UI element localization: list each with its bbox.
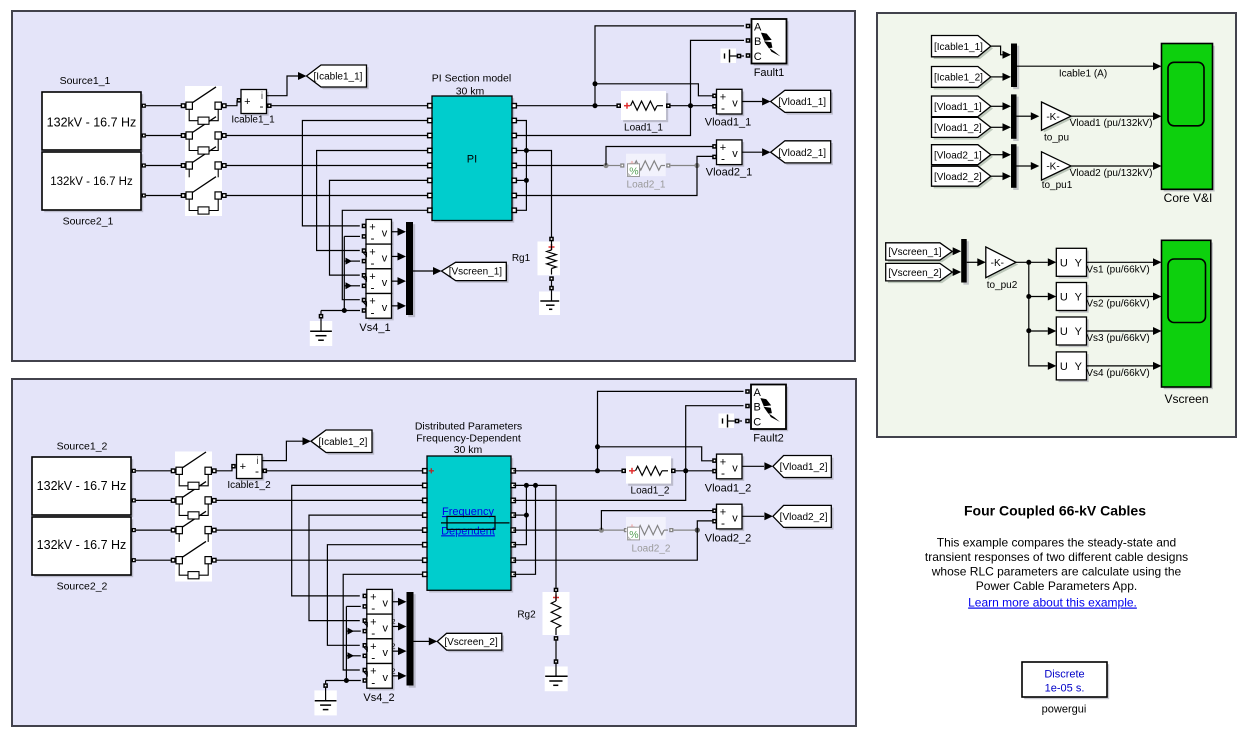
chevron marks at + ports (2) xyxy=(364,622,368,675)
junction screen trunkB xyxy=(533,483,538,488)
svg-text:[Icable1_1]: [Icable1_1] xyxy=(934,42,983,53)
svg-text:[Icable1_2]: [Icable1_2] xyxy=(319,437,368,448)
svg-text:[Vload1_1]: [Vload1_1] xyxy=(934,102,982,113)
svg-text:-: - xyxy=(371,651,375,665)
wire FD port 8 to Vs4_2 block4 + xyxy=(343,574,425,670)
wire Load1_1 to Vload1_1 - xyxy=(671,105,714,107)
wires Vscreen tags to mux4 xyxy=(952,247,961,276)
svg-text:v: v xyxy=(383,647,389,659)
svg-text:Source2_1: Source2_1 xyxy=(63,216,114,228)
svg-text:-: - xyxy=(371,626,375,640)
wire PI port 6 to Vs4_1 block3 + xyxy=(330,180,430,275)
svg-text:Dependent: Dependent xyxy=(441,525,495,537)
wire source to breaker phase 4 (system 2) xyxy=(136,559,173,561)
label Load2_1 xyxy=(627,180,666,191)
from tag [Icable1_2] xyxy=(932,67,994,90)
svg-text:v: v xyxy=(382,252,388,264)
svg-text:transient responses of two dif: transient responses of two different cab… xyxy=(925,550,1188,564)
breaker Brk4_1 xyxy=(181,177,226,214)
wire to Vload2_2 + xyxy=(601,511,713,530)
ground Rg1 xyxy=(539,290,560,315)
breaker icon background strip xyxy=(185,86,222,216)
svg-text:-: - xyxy=(371,675,375,689)
svg-text:U: U xyxy=(1060,326,1068,338)
selector U Y #2 xyxy=(1056,283,1088,313)
ground (rotated) at Fault1 C xyxy=(721,49,745,64)
svg-text:A: A xyxy=(754,21,762,33)
resistor Rg1 xyxy=(538,237,561,291)
svg-text:30 km: 30 km xyxy=(454,444,483,456)
svg-text:Vs4_1: Vs4_1 xyxy=(359,322,390,334)
label Icable1_1 xyxy=(231,115,275,126)
label Icable1 (A) xyxy=(1059,69,1107,80)
wire selector2 to scope xyxy=(1087,293,1162,301)
svg-text:powergui: powergui xyxy=(1042,704,1087,716)
svg-text:30 km: 30 km xyxy=(456,86,485,98)
wire Fault1 B via vertical to PI out3 xyxy=(516,40,744,135)
wire mux to Vscreen_2 tag xyxy=(414,637,438,645)
svg-text:%: % xyxy=(629,165,638,177)
label Vload2 (pu/132kV) xyxy=(1070,168,1153,179)
breaker Brk4_2 xyxy=(171,541,216,578)
current measurement Icable1_1 xyxy=(241,90,272,116)
junction selector row2 xyxy=(1026,294,1031,299)
selector U Y #1 xyxy=(1056,248,1088,278)
wire branch to Vload1_2 + xyxy=(598,447,714,461)
svg-text:v: v xyxy=(383,598,389,610)
svg-text:Frequency-Dependent: Frequency-Dependent xyxy=(416,432,521,444)
cable block Distributed Parameters Frequency-Dependent xyxy=(423,456,516,593)
svg-text:2: 2 xyxy=(391,642,395,651)
svg-text:Distributed Parameters: Distributed Parameters xyxy=(415,421,522,433)
wire Icable1_1 i output to goto tag xyxy=(267,72,307,96)
voltage measurement Vload2_1 xyxy=(712,140,770,167)
wire PI out4 to trunk xyxy=(516,150,526,152)
label Vload2_2 xyxy=(705,533,752,545)
svg-text:132kV - 16.7 Hz: 132kV - 16.7 Hz xyxy=(50,176,133,188)
svg-text:Vload1_1: Vload1_1 xyxy=(705,117,752,129)
breaker icon background strip 2 xyxy=(175,452,212,582)
label to_pu2 xyxy=(987,280,1018,291)
wire to selector1 xyxy=(1029,258,1057,266)
junction node load2 left (grey) xyxy=(603,163,608,168)
wire breaker1 to current measurement + port xyxy=(226,98,242,106)
label Core V&I xyxy=(1164,191,1213,205)
label Vs4_1 xyxy=(359,322,390,334)
wire mux to Vscreen_1 tag xyxy=(413,267,442,275)
wire source to breaker phase 4 xyxy=(146,195,183,197)
svg-text:[Vload2_1]: [Vload2_1] xyxy=(778,148,826,159)
mux Icable xyxy=(1011,44,1019,90)
label Distributed Parameters Frequency-Dependent 30 km xyxy=(415,421,522,457)
wire breaker1 to Icable1_2 + port xyxy=(216,464,236,471)
gain to_pu2 xyxy=(986,247,1018,280)
svg-text:Vload2_1: Vload2_1 xyxy=(706,167,753,179)
wire source to breaker phase 1 xyxy=(146,105,183,107)
svg-text:v: v xyxy=(732,148,738,160)
wire source to breaker phase 3 xyxy=(146,165,183,167)
source block Source2_2 (132kV - 16.7 Hz) xyxy=(32,517,136,577)
wire Icable1_2 i output to goto tag xyxy=(262,437,311,460)
wire up to Fault2 A xyxy=(598,391,744,470)
junction selector row3 xyxy=(1026,328,1031,333)
label Vload2_1 xyxy=(706,167,753,179)
panel: frequency dependent system (bottom left) xyxy=(12,379,856,726)
breaker Brk3_1 xyxy=(181,147,226,178)
source block Source1_2 (132kV - 16.7 Hz) xyxy=(32,457,136,517)
label Vscreen xyxy=(1164,392,1208,406)
wire to_pu1 to scope xyxy=(1071,162,1162,170)
wire selector4 to scope xyxy=(1087,362,1162,370)
wires Vload2 tags to mux3 xyxy=(991,151,1011,181)
svg-text:to_pu2: to_pu2 xyxy=(987,280,1018,291)
svg-text:Source1_1: Source1_1 xyxy=(60,75,111,87)
svg-text:Fault1: Fault1 xyxy=(754,67,785,79)
label Load1_1 xyxy=(624,123,663,134)
wire Icable tags to mux1 xyxy=(991,46,1011,81)
wire to_pu2 to selector trunk xyxy=(1016,262,1056,370)
wire selector1 to scope xyxy=(1087,258,1162,266)
wire trunkB xyxy=(513,485,535,574)
wire FD out4 to trunkA xyxy=(513,514,526,516)
gain to_pu xyxy=(1042,102,1074,133)
svg-text:Rg1: Rg1 xyxy=(512,253,531,264)
wire breaker4 to FD input 7 xyxy=(216,559,425,561)
svg-text:v: v xyxy=(382,277,388,289)
junction trunkA port4 xyxy=(524,513,529,518)
svg-text:C: C xyxy=(754,51,762,63)
svg-text:[Vload2_1]: [Vload2_1] xyxy=(934,150,982,161)
svg-text:-: - xyxy=(371,281,375,295)
svg-text:Icable1_2: Icable1_2 xyxy=(227,480,271,491)
wire PI out1 to Load1_1 (phase node) xyxy=(516,105,617,107)
wire breaker3 to PI input 5 xyxy=(226,165,430,167)
junction trunk-Rg1 xyxy=(524,148,529,153)
svg-text:[Vscreen_2]: [Vscreen_2] xyxy=(444,637,498,648)
source block Source2_1 (132kV - 16.7 Hz) xyxy=(42,152,146,212)
wire source to breaker phase 3 (system 2) xyxy=(136,529,173,531)
svg-text:Discrete: Discrete xyxy=(1044,669,1084,681)
resistor Load1_2 xyxy=(621,456,675,486)
title Four Coupled 66-kV Cables xyxy=(964,503,1146,519)
svg-text:B: B xyxy=(754,36,761,48)
wire branch to Vload1_1 + xyxy=(595,84,713,96)
wire Icable1_1 - to PI input 1 xyxy=(272,105,430,107)
wire breaker3 to FD input 5 xyxy=(216,529,425,531)
svg-text:Vload2_2: Vload2_2 xyxy=(705,533,752,545)
source block Source1_1 (132kV - 16.7 Hz) xyxy=(42,92,146,152)
svg-text:Vload1 (pu/132kV): Vload1 (pu/132kV) xyxy=(1070,118,1153,129)
svg-text:Rg2: Rg2 xyxy=(517,610,536,621)
wire minus b3 xyxy=(344,282,360,289)
three-phase fault Fault1 xyxy=(746,19,789,66)
label Source2_1 xyxy=(63,216,114,228)
label Rg1 xyxy=(512,253,531,264)
svg-text:Y: Y xyxy=(1075,257,1083,269)
svg-text:Vs4 (pu/66kV): Vs4 (pu/66kV) xyxy=(1086,368,1149,379)
svg-text:to_pu1: to_pu1 xyxy=(1042,180,1073,191)
wire PI out2 screen trunk xyxy=(516,121,526,211)
svg-text:v: v xyxy=(732,462,738,474)
wires Vs4_1 outputs to mux xyxy=(392,228,407,310)
svg-text:-: - xyxy=(721,152,725,166)
wire FD port 6 to Vs4_2 block3 + xyxy=(327,545,424,646)
ground Vs4_2 xyxy=(314,683,336,715)
svg-text:This example compares the stea: This example compares the steady-state a… xyxy=(937,535,1176,549)
wire Icable1_2 - to FD input 1 xyxy=(267,470,425,472)
label Icable1_2 xyxy=(227,480,271,491)
wire PI out5 to Load2_1 node xyxy=(516,165,604,167)
breaker Brk1_1 xyxy=(181,87,226,124)
svg-text:v: v xyxy=(382,302,388,314)
label Vs2 (pu/66kV) xyxy=(1086,299,1149,310)
svg-text:Fault2: Fault2 xyxy=(753,433,784,445)
svg-text:Source1_2: Source1_2 xyxy=(57,441,108,453)
svg-text:-: - xyxy=(260,99,264,113)
wire to Vload2_1 + xyxy=(606,147,713,166)
label Vload1_2 xyxy=(705,483,752,495)
cable block PI Section model xyxy=(428,96,517,223)
voltage measurement Vload2_2 xyxy=(712,504,773,531)
svg-text:Y: Y xyxy=(1075,361,1083,373)
powergui block Discrete 1e-05 s xyxy=(1022,662,1109,699)
voltage measurement Vload1_1 xyxy=(712,89,770,116)
wire Fault2 B via vertical to FD out3 xyxy=(513,406,743,501)
goto tag [Vload2_2] xyxy=(773,505,834,529)
mux Vload2 xyxy=(1011,144,1019,190)
from tag [Vscreen_2] xyxy=(886,263,955,283)
wire FD out2 screen to Rg2 xyxy=(513,485,556,588)
svg-text:132kV - 16.7 Hz: 132kV - 16.7 Hz xyxy=(37,538,127,552)
label PI Section model 30 km xyxy=(432,73,511,98)
wire to_pu to scope xyxy=(1071,112,1162,120)
wire PI port 2 to Vs4_1 block1 + xyxy=(302,121,429,226)
svg-text:PI Section model: PI Section model xyxy=(432,73,511,85)
wire breaker2 to FD input 3 xyxy=(216,499,425,501)
svg-text:Vscreen: Vscreen xyxy=(1164,392,1208,406)
svg-text:B: B xyxy=(754,401,761,413)
goto tag [Vscreen_1] xyxy=(442,262,509,283)
wire minus b1 (2) xyxy=(346,605,360,607)
link Learn more about this example xyxy=(968,596,1137,610)
svg-text:[Vload2_2]: [Vload2_2] xyxy=(934,172,982,183)
svg-text:PI: PI xyxy=(467,154,477,166)
wire source to breaker phase 2 (system 2) xyxy=(136,499,173,501)
wire trunk to Rg1 xyxy=(526,151,551,238)
svg-text:[Vscreen_1]: [Vscreen_1] xyxy=(888,247,942,258)
wire mux1 to scope xyxy=(1017,62,1162,70)
svg-text:Y: Y xyxy=(1075,326,1083,338)
svg-text:A: A xyxy=(754,387,762,399)
wires Vs4_2 outputs to mux xyxy=(392,598,406,680)
voltage measurement stack Vs4_1 xyxy=(362,219,394,320)
three-phase fault Fault2 xyxy=(745,385,788,432)
wire minus b4 and ground xyxy=(321,311,360,315)
svg-text:whose RLC parameters are calcu: whose RLC parameters are calculate using… xyxy=(931,564,1182,578)
svg-text:Load2_2: Load2_2 xyxy=(632,543,671,554)
goto tag [Vload1_1] xyxy=(771,90,833,114)
svg-text:Vs1 (pu/66kV): Vs1 (pu/66kV) xyxy=(1086,264,1149,275)
scope Vscreen xyxy=(1162,240,1214,389)
svg-text:+: + xyxy=(240,461,246,473)
svg-text:[Icable1_1]: [Icable1_1] xyxy=(314,72,363,83)
junction node load2_2 right xyxy=(695,528,700,533)
svg-text:U: U xyxy=(1060,257,1068,269)
svg-text:-: - xyxy=(721,101,725,115)
ground (rotated) at Fault2 C xyxy=(719,414,743,429)
breaker Brk1_2 xyxy=(171,452,216,489)
junction minus-ground (2) xyxy=(344,678,349,683)
resistor Rg2 xyxy=(543,588,570,664)
wire FD out1 to Load1_2 xyxy=(513,470,622,472)
label to_pu xyxy=(1044,133,1069,144)
wires Vload1 tags to mux2 xyxy=(991,102,1011,131)
label Load2_2 xyxy=(632,543,671,554)
svg-text:[Vload1_2]: [Vload1_2] xyxy=(780,462,828,473)
svg-text:Icable1 (A): Icable1 (A) xyxy=(1059,69,1107,80)
from tag [Vscreen_1] xyxy=(886,243,955,262)
label Source1_2 xyxy=(57,441,108,453)
svg-text:Vs2 (pu/66kV): Vs2 (pu/66kV) xyxy=(1086,299,1149,310)
panel: measurements (right) xyxy=(877,13,1236,437)
wire minus b3 (2) xyxy=(346,652,360,659)
wire breaker4 to PI input 7 xyxy=(226,195,430,197)
svg-text:%: % xyxy=(629,529,638,541)
junction node load2 right (grey) xyxy=(694,163,699,168)
ground Rg2 xyxy=(545,664,568,692)
current measurement Icable1_2 xyxy=(237,455,268,481)
label Source1_1 xyxy=(60,75,111,87)
label Vs1 (pu/66kV) xyxy=(1086,264,1149,275)
wire breaker2 to PI input 3 xyxy=(226,135,430,137)
svg-text:v: v xyxy=(382,228,388,240)
svg-text:Load2_1: Load2_1 xyxy=(627,180,666,191)
svg-text:v: v xyxy=(732,513,738,525)
label Vs4 (pu/66kV) xyxy=(1086,368,1149,379)
label Fault2 xyxy=(753,433,784,445)
svg-text:Y: Y xyxy=(1075,292,1083,304)
commented resistor Load2_1 xyxy=(606,154,695,178)
wire to selector3 xyxy=(1029,327,1057,335)
svg-text:Vload2 (pu/132kV): Vload2 (pu/132kV) xyxy=(1070,168,1153,179)
svg-text:v: v xyxy=(732,98,738,110)
junction node phase1-fault xyxy=(593,103,598,108)
svg-text:-: - xyxy=(721,516,725,530)
wire Vs4_1 minus trunk xyxy=(343,236,345,310)
wire source to breaker phase 1 (system 2) xyxy=(136,470,173,472)
wire mux4 to gain to_pu2 xyxy=(967,258,986,266)
svg-text:-K-: -K- xyxy=(991,258,1004,269)
from tag [Vload1_1] xyxy=(932,96,994,119)
svg-text:U: U xyxy=(1060,292,1068,304)
breaker Brk2_1 xyxy=(181,117,226,154)
label Vload1_1 xyxy=(705,117,752,129)
svg-text:[Vscreen_1]: [Vscreen_1] xyxy=(449,267,503,278)
svg-text:Vs3 (pu/66kV): Vs3 (pu/66kV) xyxy=(1086,333,1149,344)
selector U Y #3 xyxy=(1056,317,1088,347)
junction node Vload1 + branch xyxy=(593,81,598,86)
svg-text:Vload1_2: Vload1_2 xyxy=(705,483,752,495)
width-2 annotations xyxy=(391,617,395,675)
commented resistor Load2_2 xyxy=(601,517,695,541)
label Fault1 xyxy=(754,67,785,79)
chevron marks at + ports xyxy=(363,252,367,305)
junction node load2_2 left (grey) xyxy=(599,528,604,533)
description paragraph xyxy=(925,535,1188,593)
svg-text:-: - xyxy=(371,601,375,615)
label Source2_2 xyxy=(57,581,108,593)
junction node load1_2 out xyxy=(683,468,688,473)
mux Vs4_2 xyxy=(407,592,416,688)
wire mux2 to gain to_pu xyxy=(1017,112,1040,120)
svg-text:Learn more about this example.: Learn more about this example. xyxy=(968,596,1137,610)
svg-text:[Icable1_2]: [Icable1_2] xyxy=(934,73,983,84)
wire selector3 to scope xyxy=(1087,327,1162,335)
wire PI out6 to trunk xyxy=(516,179,526,181)
wire Vload2_2 - to FD out7 xyxy=(513,521,713,560)
svg-text:[Vscreen_2]: [Vscreen_2] xyxy=(888,268,942,279)
voltage measurement stack Vs4_2 xyxy=(363,589,395,690)
gain to_pu1 xyxy=(1042,152,1074,183)
svg-text:Four Coupled 66-kV Cables: Four Coupled 66-kV Cables xyxy=(964,503,1146,519)
wire Load1_2 to Vload1_2 - xyxy=(676,470,714,472)
wire minus b2 (2) xyxy=(346,628,360,635)
mux Vscreen xyxy=(961,239,969,285)
svg-text:[Vload1_2]: [Vload1_2] xyxy=(934,123,982,134)
svg-text:-K-: -K- xyxy=(1046,162,1059,173)
scope Core V&I xyxy=(1162,44,1215,192)
from tag [Vload1_2] xyxy=(932,117,994,139)
svg-text:U: U xyxy=(1060,361,1068,373)
selector U Y #4 xyxy=(1056,352,1088,382)
svg-text:[Vload1_1]: [Vload1_1] xyxy=(778,97,826,108)
panel: PI section system (top left) xyxy=(12,11,855,361)
wire FD port 2 to Vs4_2 block1 + xyxy=(292,485,425,596)
wire minus b2 xyxy=(344,258,360,265)
svg-text:-K-: -K- xyxy=(1046,112,1059,123)
svg-text:C: C xyxy=(753,416,761,428)
mux Vs4_1 xyxy=(406,222,415,317)
voltage measurement Vload1_2 xyxy=(712,454,773,481)
svg-text:1e-05 s.: 1e-05 s. xyxy=(1045,683,1085,695)
label Vs4_2 xyxy=(363,692,394,704)
from tag [Vload2_1] xyxy=(932,145,994,167)
wire to selector2 xyxy=(1029,293,1057,301)
svg-text:Source2_2: Source2_2 xyxy=(57,581,108,593)
svg-text:-: - xyxy=(371,256,375,270)
goto tag [Vscreen_2] xyxy=(437,633,504,652)
wire Vload2_1 - to PI out7 xyxy=(516,156,713,195)
svg-text:2: 2 xyxy=(391,666,395,675)
junction node Vload1_2 + branch xyxy=(595,444,600,449)
svg-text:-: - xyxy=(371,305,375,319)
label Vs3 (pu/66kV) xyxy=(1086,333,1149,344)
wire Vs4_2 minus trunk xyxy=(345,606,347,680)
wire source to breaker phase 2 xyxy=(146,135,183,137)
goto tag [Icable1_2] xyxy=(311,430,374,455)
junction selector row1 xyxy=(1026,260,1031,265)
svg-text:v: v xyxy=(383,622,389,634)
wire minus b1 xyxy=(344,235,360,237)
svg-text:132kV - 16.7 Hz: 132kV - 16.7 Hz xyxy=(37,479,127,493)
svg-text:Load1_2: Load1_2 xyxy=(631,485,670,496)
breaker Brk2_2 xyxy=(171,482,216,519)
svg-text:to_pu: to_pu xyxy=(1044,133,1069,144)
junction minus-ground xyxy=(342,308,347,313)
wire mux3 to gain to_pu1 xyxy=(1017,162,1040,170)
resistor Load1_1 xyxy=(616,91,670,122)
svg-text:v: v xyxy=(383,672,389,684)
